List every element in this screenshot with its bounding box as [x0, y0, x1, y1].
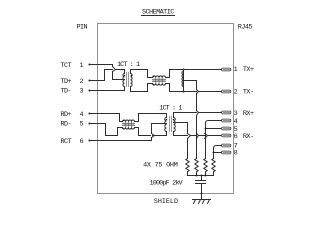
wire hop TCT over TD+ [113, 67, 116, 72]
svg-text:RX-: RX- [243, 133, 254, 141]
svg-text:6: 6 [234, 133, 238, 141]
title SCHEMATIC [142, 9, 174, 17]
node junction pins 4-5 [204, 127, 206, 129]
svg-text:6: 6 [80, 138, 84, 146]
transformer T2 secondary winding [165, 118, 167, 132]
transformer T2 primary polarity dot [173, 119, 175, 121]
connector pin 4 pill [222, 119, 231, 122]
wire R4 vertical [213, 153, 215, 159]
choke L1 core lines [153, 80, 166, 82]
node junction R2 bar [195, 174, 197, 176]
label RD+ 4 [61, 111, 84, 119]
node junction shield line [200, 192, 202, 194]
svg-text:RD-: RD- [61, 121, 72, 129]
wire autotransformer tap to R2 [184, 81, 197, 159]
choke L3 bottom winding [123, 128, 135, 130]
wire RD- to choke L3 bottom [90, 124, 123, 136]
choke L3 core lines [123, 124, 135, 126]
transformer T2 core [170, 117, 172, 132]
wire RCT to T2 center tap [90, 124, 167, 141]
choke L3 top winding [123, 120, 135, 122]
wire hop T2 tap vertical over pin6 line [188, 134, 191, 139]
svg-text:RJ45: RJ45 [238, 23, 253, 31]
label pin 7 [234, 142, 238, 150]
svg-text:RX+: RX+ [243, 110, 254, 118]
node junction pins 7-8 [212, 151, 214, 153]
svg-text:TCT: TCT [61, 62, 72, 70]
wire TD+ to T1 primary top [90, 70, 125, 81]
title underline [142, 15, 175, 17]
label TD+ 2 [61, 78, 84, 86]
svg-text:1000pF 2kV: 1000pF 2kV [150, 179, 184, 187]
svg-text:4: 4 [234, 118, 238, 126]
svg-text:4: 4 [80, 111, 84, 119]
wire T1 secondary top to choke L1 top [131, 70, 153, 78]
svg-text:1: 1 [234, 66, 238, 74]
svg-text:TX-: TX- [243, 89, 254, 97]
svg-text:5: 5 [80, 121, 84, 129]
wire RD+ to choke L3 top [90, 114, 123, 122]
wire T2 primary top to pin 3 [174, 113, 222, 118]
label TCT 1 [61, 62, 84, 70]
svg-text:TD+: TD+ [61, 78, 72, 86]
label 1000pF 2kV [150, 179, 184, 187]
wire pin 4 to R3 vertical [206, 121, 222, 129]
wire pin 5 line [206, 128, 222, 130]
resistor R3 [204, 159, 207, 176]
choke L1 bottom polarity dot [153, 84, 155, 86]
node TCT pin dot [88, 63, 90, 65]
choke L1 core hatch [156, 78, 163, 83]
transformer T2 label 1CT : 1 [159, 104, 182, 112]
choke L3 core [123, 123, 135, 126]
wire pin 8 line [214, 152, 222, 154]
connector pin 3 pill [222, 111, 231, 114]
label pin 6 RX- [234, 133, 254, 141]
svg-text:3: 3 [80, 88, 84, 96]
wire R3 vertical [205, 129, 207, 159]
label SHIELD [154, 198, 178, 206]
svg-text:PIN: PIN [77, 23, 88, 31]
transformer T1 secondary polarity dot [131, 75, 133, 77]
node TD+ pin dot [88, 79, 90, 81]
choke L3 bottom polarity dot [123, 128, 125, 130]
wire choke L1 bottom to pin2 line [166, 84, 170, 92]
schematic box [98, 24, 234, 194]
wire capacitor C1 to shield [201, 184, 203, 194]
wire hop pin2 line over tap vertical [197, 90, 199, 94]
label 4X 75 OHM [143, 161, 178, 169]
label pin 2 TX- [234, 89, 254, 97]
resistor R2 [195, 159, 198, 176]
wire TCT to T1 center tap [90, 65, 125, 80]
wire choke L3 top to T2 secondary top [135, 114, 167, 122]
label pin 4 [234, 118, 238, 126]
wire choke L3 bottom to T2 secondary bottom [135, 128, 167, 136]
wire resistor common bar [188, 175, 214, 177]
capacitor C1 plates [196, 181, 206, 184]
transformer T1 primary winding [123, 74, 125, 87]
resistor R1 [186, 159, 189, 176]
svg-text:SHIELD: SHIELD [154, 198, 178, 206]
label TD- 3 [61, 88, 84, 96]
label RD- 5 [61, 121, 84, 129]
connector pin 1 pill [222, 68, 231, 71]
svg-text:1: 1 [80, 62, 84, 70]
svg-text:RD+: RD+ [61, 111, 72, 119]
wire T2 primary bottom to pin 6 RX- [174, 132, 222, 136]
connector pin 8 pill [222, 151, 231, 154]
wire hop tap vertical over pin3 line [197, 111, 199, 116]
choke L1 top winding [153, 76, 166, 78]
autotransformer L2 bumps [182, 72, 184, 87]
svg-text:TD-: TD- [61, 88, 72, 96]
transformer T2 secondary polarity dot [166, 119, 168, 121]
wire pin 1 TX+ line [170, 69, 222, 71]
node RD- pin dot [88, 122, 90, 124]
wire hop T2 bottom line over RCT vertical [152, 134, 155, 138]
wire choke L1 top to pin1 line [166, 70, 170, 78]
label pin 1 TX+ [234, 66, 254, 74]
svg-text:TX+: TX+ [243, 66, 254, 74]
label pin 8 [234, 150, 238, 158]
node junction cap bar [200, 174, 202, 176]
choke L1 core [153, 79, 166, 82]
resistor R4 [212, 159, 215, 176]
wire pin 7 to R4 vertical [214, 146, 222, 153]
svg-text:1CT : 1: 1CT : 1 [117, 61, 140, 69]
svg-text:3: 3 [234, 110, 238, 118]
svg-text:RCT: RCT [61, 138, 72, 146]
wire TD- to T1 primary bottom [90, 87, 125, 91]
transformer T1 label 1CT : 1 [117, 61, 140, 69]
wire T2 primary tap to R1 [174, 123, 188, 159]
label pin 3 RX+ [234, 110, 254, 118]
wire bar to capacitor C1 [201, 176, 203, 181]
svg-text:2: 2 [80, 78, 84, 86]
label PIN [77, 23, 88, 31]
wire T1 secondary bottom to choke L1 bottom [131, 84, 153, 92]
connector pin 5 pill [222, 127, 231, 130]
transformer T1 core [127, 73, 129, 87]
transformer T1 secondary winding [131, 74, 133, 87]
node junction R3 bar [204, 174, 206, 176]
connector pin 2 pill [222, 90, 231, 93]
node TD- pin dot [88, 89, 90, 91]
svg-text:1CT : 1: 1CT : 1 [159, 104, 182, 112]
choke L1 top polarity dot [153, 76, 155, 78]
autotransformer L2 winding line [183, 70, 185, 92]
node junction autotransformer bottom [182, 90, 184, 92]
label pin 5 [234, 126, 238, 134]
choke L3 core hatch [126, 122, 132, 127]
choke L1 bottom winding [153, 84, 166, 86]
label RJ45 [238, 23, 253, 31]
svg-text:8: 8 [234, 150, 238, 158]
wire hop pin6 line over R2 vertical [197, 134, 199, 139]
node RD+ pin dot [88, 112, 90, 114]
label RCT 6 [61, 138, 84, 146]
transformer T1 primary polarity dot [124, 75, 126, 77]
ground chassis symbol [193, 194, 211, 204]
wire hop pin6 line over R3 vertical [205, 134, 208, 139]
transformer T2 primary winding [174, 118, 176, 132]
wire pin 2 TX- line [170, 91, 222, 93]
svg-text:2: 2 [234, 89, 238, 97]
node junction autotransformer top [182, 68, 184, 70]
node RCT pin dot [88, 139, 90, 141]
choke L3 top polarity dot [123, 120, 125, 122]
connector pin 6 pill [222, 134, 231, 137]
svg-text:4X 75 OHM: 4X 75 OHM [143, 161, 178, 169]
connector pin 7 pill [222, 144, 231, 147]
